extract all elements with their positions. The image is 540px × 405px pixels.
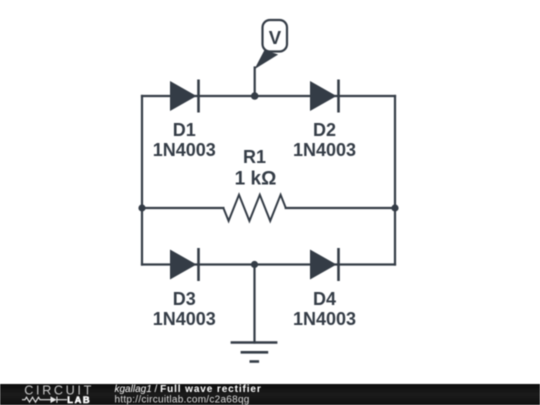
svg-text:R1: R1 <box>243 147 266 167</box>
wire voltmeter probe stem <box>254 68 256 97</box>
diode D2 <box>310 80 339 113</box>
node top junction <box>251 92 259 100</box>
wire middle rail right lead <box>286 207 395 209</box>
svg-text:D2: D2 <box>313 120 336 140</box>
wire bottom rail <box>142 263 395 265</box>
svg-text:D4: D4 <box>313 289 336 309</box>
diode D3 <box>170 248 199 281</box>
diode D1 <box>170 80 199 113</box>
svg-text:http://circuitlab.com/c2a68qg: http://circuitlab.com/c2a68qg <box>115 394 250 405</box>
node bottom junction <box>251 261 258 268</box>
logo circuit wire with resistor and diode <box>22 397 67 403</box>
svg-text:1 kΩ: 1 kΩ <box>235 168 277 189</box>
svg-text:LAB: LAB <box>67 395 91 405</box>
diode D4 <box>310 248 339 281</box>
svg-text:D1: D1 <box>173 120 196 140</box>
wire right rail <box>394 96 396 265</box>
svg-text:D3: D3 <box>173 289 196 309</box>
wire ground stem <box>253 265 255 343</box>
wire left rail <box>141 96 143 265</box>
svg-text:1N4003: 1N4003 <box>153 140 216 160</box>
ground <box>231 343 278 362</box>
svg-text:1N4003: 1N4003 <box>153 309 216 329</box>
svg-text:1N4003: 1N4003 <box>293 309 356 329</box>
wire top rail <box>142 95 395 97</box>
wire middle rail left lead <box>142 207 223 209</box>
logo diode triangle <box>51 396 57 403</box>
node right middle junction <box>391 204 398 211</box>
svg-text:V: V <box>269 27 282 48</box>
node left middle junction <box>138 204 145 211</box>
svg-text:1N4003: 1N4003 <box>293 140 356 160</box>
voltmeter probe V <box>254 20 287 69</box>
resistor R1 <box>223 195 285 221</box>
